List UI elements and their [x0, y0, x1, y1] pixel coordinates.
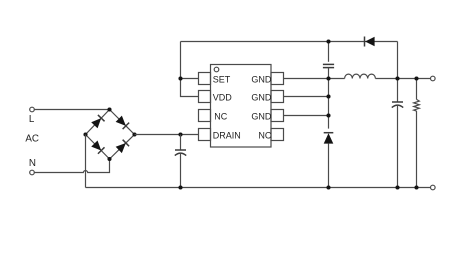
node bridge bottom junction	[107, 157, 111, 161]
node bridge left junction	[83, 132, 87, 136]
wire GND pin 6 to switch node	[284, 115, 329, 117]
bridge diode D3 (left node to bottom node)	[86, 135, 110, 160]
node GND pin 6 junction	[326, 113, 330, 117]
terminal output negative	[431, 185, 436, 190]
pin box right pin 5 (NC)	[271, 129, 284, 141]
wire inductor to output terminal	[375, 78, 430, 80]
diode D5 (freewheeling diode, pointing up)	[324, 133, 334, 188]
wire VDD pin to top rail	[181, 42, 199, 97]
svg-text:GND: GND	[251, 92, 272, 102]
svg-text:NC: NC	[258, 130, 271, 140]
wire bridge right node to DRAIN pin	[135, 134, 199, 136]
node R1 top junction	[414, 76, 418, 80]
node GND pin 7 junction	[326, 94, 330, 98]
node DRAIN / C1 junction	[178, 132, 182, 136]
node GND pin 8 junction	[326, 76, 330, 80]
bridge diode D4 (bottom node to right node)	[110, 135, 135, 160]
node D5 anode / bottom rail junction	[326, 185, 330, 189]
capacitor C3 (output capacitor)	[392, 102, 403, 188]
capacitor C1 (input bulk capacitor)	[175, 135, 186, 188]
svg-text:GND: GND	[251, 111, 272, 121]
node output wire / C3 junction	[395, 76, 399, 80]
pin box right pin 8 (GND)	[271, 73, 284, 85]
resistor R1 (output load resistor)	[414, 79, 420, 188]
node C1 bottom junction	[178, 185, 182, 189]
wire bottom rail	[86, 187, 431, 189]
pin box left pin 2 (VDD)	[199, 91, 211, 103]
node R1 bottom junction	[414, 185, 418, 189]
terminal N	[30, 170, 35, 175]
pin box left pin 3 (NC)	[199, 110, 211, 122]
pin box right pin 7 (GND)	[271, 91, 284, 103]
node bridge top junction	[107, 107, 111, 111]
wire top rail down right side to C3	[397, 42, 399, 103]
node C3 bottom junction	[395, 185, 399, 189]
svg-text:N: N	[29, 158, 36, 169]
svg-text:L: L	[29, 114, 35, 125]
svg-text:SET: SET	[213, 74, 231, 84]
IC U1 body	[211, 65, 272, 148]
svg-text:VDD: VDD	[213, 92, 233, 102]
wire N to bridge bottom node (hops over negative rail drop)	[34, 159, 109, 173]
bridge diode D1 (left node to top node)	[86, 110, 110, 135]
wire switch node vertical (top rail to C2)	[328, 42, 330, 62]
diode D6 (top rail diode, pointing left)	[365, 37, 375, 47]
svg-text:NC: NC	[214, 111, 227, 121]
wire L to bridge top node	[34, 109, 109, 111]
wire GND pin 8 to switch node and inductor	[284, 78, 345, 80]
svg-text:GND: GND	[251, 74, 272, 84]
wire bridge left node down to bottom rail	[85, 135, 87, 188]
pin 1 indicator circle	[214, 67, 219, 72]
wire top rail	[181, 41, 398, 43]
svg-text:DRAIN: DRAIN	[213, 130, 241, 140]
capacitor C2 (VDD capacitor)	[323, 64, 334, 128]
pin box left pin 1 (SET)	[199, 73, 211, 85]
pin box left pin 4 (DRAIN)	[199, 129, 211, 141]
wire SET pin	[181, 78, 199, 80]
terminal L	[30, 107, 35, 112]
node bridge right junction	[132, 132, 136, 136]
bridge diode D2 (top node to right node)	[110, 110, 135, 135]
node top rail / C2 junction	[326, 39, 330, 43]
svg-text:AC: AC	[25, 133, 39, 144]
terminal output positive	[431, 76, 436, 81]
inductor L1	[345, 74, 376, 78]
node SET junction	[178, 76, 182, 80]
wire GND pin 7 to switch node	[284, 96, 329, 98]
pin box right pin 6 (GND)	[271, 110, 284, 122]
